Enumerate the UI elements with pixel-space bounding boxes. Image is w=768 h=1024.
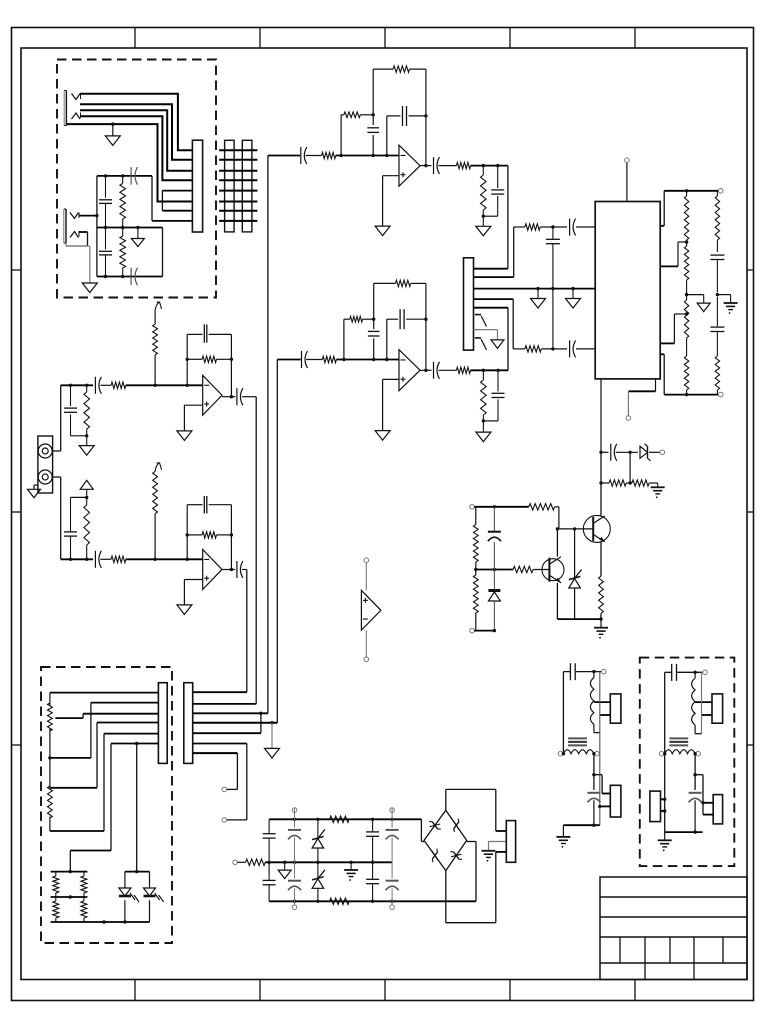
capacitor C17 between chains <box>546 227 560 349</box>
capacitor C5 <box>301 147 307 164</box>
capacitor C39 <box>95 551 101 568</box>
capacitor C21 <box>488 507 501 570</box>
capacitor C27 <box>366 862 379 901</box>
wire IC chain A <box>514 225 596 228</box>
wire W1 right <box>594 672 600 826</box>
wire stage1 input <box>268 155 300 157</box>
resistor R12 <box>481 370 487 421</box>
op-amp U3 supply <box>361 558 381 662</box>
wire C41-corner <box>242 569 247 571</box>
capacitor C37 <box>237 388 243 405</box>
wire bridge right <box>467 842 476 902</box>
ground U4A <box>177 431 192 441</box>
wire Q2 base <box>557 527 593 530</box>
capacitor C4 <box>131 268 137 286</box>
wire net bottom <box>97 275 163 278</box>
resistor R16 chain <box>715 191 719 252</box>
wire top rail <box>269 818 421 821</box>
wire branch C7 <box>387 116 426 156</box>
wire RC bottom stage1 <box>482 215 498 218</box>
dashed enclosure controls <box>41 667 172 943</box>
wire led feed <box>70 744 136 872</box>
wire R30-opampA <box>126 384 203 387</box>
wire row4 <box>193 721 278 724</box>
resistor R2 <box>120 228 126 277</box>
wire W4 right down <box>694 754 696 790</box>
terminal PSU in <box>233 860 246 865</box>
arrow stageB shunt <box>80 480 93 497</box>
resistor R19 <box>632 480 649 486</box>
wire J4 ground <box>28 485 41 498</box>
wire U4B out <box>222 569 235 571</box>
potentiometer P1 <box>48 693 53 760</box>
dashed enclosure T2 <box>640 658 735 867</box>
wire switch common <box>474 330 498 340</box>
resistor R23 divider <box>473 507 478 631</box>
wire row1 <box>193 691 247 693</box>
wire J1 tip <box>80 94 192 151</box>
capacitor C16 <box>570 340 576 357</box>
connector CN1 <box>192 140 202 232</box>
wire lrow6 <box>70 742 158 851</box>
wire C20 down <box>628 452 631 484</box>
resistor R15 chain <box>684 191 688 395</box>
wire IC chain B <box>513 347 595 350</box>
wire J3 pin1 <box>474 268 508 270</box>
connector J3 <box>464 258 474 350</box>
wire J4-A <box>53 385 61 451</box>
ground CN4 <box>482 851 496 862</box>
resistor R31 <box>202 356 216 362</box>
cable housing rect 1 <box>225 140 235 232</box>
ground tap2 <box>697 303 710 312</box>
ground switches <box>491 340 504 349</box>
phone jack J1 <box>64 91 80 126</box>
transformer core T1 <box>568 738 587 745</box>
resistor R14 <box>525 346 541 352</box>
wire row6 <box>193 743 247 745</box>
LED D4 <box>119 872 139 922</box>
resistor R22 <box>513 566 533 572</box>
wire U4A noninv <box>184 405 202 431</box>
capacitor C33 <box>689 793 702 832</box>
wire fbB top <box>187 504 231 506</box>
capacitor C6 <box>367 128 379 133</box>
wire U4B noninv <box>184 580 202 605</box>
wire U4A out <box>222 396 235 398</box>
resistor R18 <box>609 480 626 486</box>
capacitor C34 <box>64 385 77 436</box>
ground RC stage2 <box>476 421 491 442</box>
wire bottom right rail <box>664 392 723 397</box>
capacitor C31 <box>587 793 600 825</box>
ground U1B <box>375 431 390 441</box>
capacitor C30 <box>570 663 575 680</box>
resistor R30 <box>111 382 126 388</box>
wire fb left stage2 <box>372 283 375 359</box>
wire C5-R3 <box>306 155 322 157</box>
ground common B <box>566 289 581 308</box>
capacitor C3 <box>131 167 137 185</box>
wire bias mid <box>474 568 513 571</box>
capacitor C12 <box>400 309 404 329</box>
wire row2 <box>193 703 257 705</box>
wire stageA shunt bottom <box>71 434 89 437</box>
wire net top <box>97 174 152 177</box>
capacitor C26 <box>366 819 379 862</box>
wire lrow3 <box>55 714 158 718</box>
wire fbA res row <box>187 358 231 360</box>
wire J1 sleeve <box>66 122 192 201</box>
wire mid rail <box>265 861 392 864</box>
resistor R6 <box>456 162 470 168</box>
title block <box>600 877 747 980</box>
wire C37-corner <box>242 396 256 398</box>
wire bias bottom <box>470 628 496 633</box>
connector CN9 <box>703 795 723 824</box>
wire to terminal T1 <box>222 753 237 792</box>
zener D2 <box>569 529 582 619</box>
wire U1A noninv <box>383 176 399 226</box>
trimmer P4 <box>153 463 162 559</box>
capacitor C29 <box>386 862 399 909</box>
wire net left <box>96 176 98 277</box>
capacitor C10 <box>302 351 308 368</box>
transistor Q1 <box>542 557 564 583</box>
capacitor C35 <box>95 377 101 394</box>
resistor R20 <box>599 576 604 613</box>
wire W1 taps <box>594 701 610 703</box>
wire cap row <box>599 451 608 454</box>
wire Q2 emitter <box>600 542 602 576</box>
capacitor C2 <box>99 228 112 277</box>
zener D6 <box>312 819 325 862</box>
wire fb top stage1 <box>373 68 426 70</box>
switch contact S2 <box>475 338 487 350</box>
ground RC stage1 <box>476 216 491 236</box>
wire T2 bottom <box>665 830 703 833</box>
zener D7 <box>312 862 325 901</box>
op-amp U1B <box>399 350 420 391</box>
connector CN3 <box>184 683 193 764</box>
wire emitter bottom <box>557 618 601 620</box>
resistor R1 <box>120 176 126 228</box>
wire tap1 to U2 <box>660 242 686 266</box>
capacitor C32 <box>672 664 677 681</box>
capacitor C38 <box>64 497 77 559</box>
wire J2 sleeve <box>66 243 90 283</box>
wire J1 contact 3 <box>80 110 192 170</box>
op-amp U1A <box>399 145 420 186</box>
wire J2 tip <box>79 214 99 217</box>
resistor R8 <box>322 356 336 362</box>
wire net mid <box>97 226 163 229</box>
ground U4B <box>177 605 192 615</box>
wire lrow4 <box>50 723 158 788</box>
wire R33-opampB <box>126 558 203 561</box>
capacitor C28 <box>386 808 399 863</box>
wire bridge left <box>421 819 424 841</box>
wire jog vertical <box>260 713 262 733</box>
cable housing rect 2 <box>242 140 252 232</box>
wire bridge top <box>446 789 496 831</box>
wire branch C12 <box>387 319 426 359</box>
ground U1A <box>375 226 390 236</box>
dashed enclosure input section <box>57 60 216 298</box>
wire fb left stage1 <box>372 69 375 155</box>
wire J2 ring <box>66 232 88 246</box>
connector CN8 <box>702 694 723 723</box>
wire Q1 collector <box>556 527 559 557</box>
ground PSU earth <box>344 862 358 881</box>
capacitor C18 <box>710 255 724 296</box>
connector CN6 <box>598 785 621 817</box>
inductor W1 primary <box>590 672 594 733</box>
resistor R32 <box>84 497 90 559</box>
wire stageB out vertical <box>246 570 248 693</box>
resistor R13 <box>525 224 540 230</box>
trimmer P3 <box>153 302 162 385</box>
capacitor C7 <box>403 106 407 126</box>
ground in net <box>131 228 144 247</box>
wire J1 contact 4 <box>80 116 192 180</box>
wire net right lower <box>162 228 164 277</box>
LED D5 <box>144 872 164 922</box>
potentiometer P2 <box>48 758 53 831</box>
wire T1 left <box>562 672 564 754</box>
wire lrow1 <box>50 692 158 694</box>
wire row7 <box>193 752 238 754</box>
wire J1 ring <box>80 104 192 160</box>
wire U1A out <box>420 165 431 167</box>
resistor R5 <box>393 66 409 72</box>
transistor Q2 <box>583 515 610 542</box>
wire T2 top <box>665 670 708 675</box>
resistor R11 <box>456 367 470 373</box>
wire W3 taps <box>695 701 712 703</box>
wire R11-corner <box>471 369 508 372</box>
wire C13-R11 <box>439 369 457 371</box>
resistor R21 <box>529 504 555 510</box>
wire bias top <box>470 505 529 510</box>
wire CN4 pin3 <box>496 851 507 853</box>
wire fb right stage2 <box>424 283 427 372</box>
wire R19-gnd <box>649 483 658 487</box>
capacitor C14 <box>492 370 505 421</box>
wire W2 jog <box>592 773 610 794</box>
wire R20-gnd <box>599 613 602 620</box>
wire fbB res row <box>187 534 231 536</box>
wire bridge bottom <box>446 852 496 923</box>
wire U2 top pin <box>625 158 630 202</box>
capacitor C8 <box>434 157 440 174</box>
capacitor C1 <box>99 176 112 228</box>
wire stageA input <box>61 384 93 387</box>
wire fbA left <box>186 334 189 385</box>
wire resistor rails <box>51 870 88 899</box>
wire row3 <box>193 712 268 715</box>
capacitor C19 <box>710 297 724 356</box>
wire net link rows <box>162 191 192 211</box>
switch contact S1 <box>475 315 487 327</box>
inductor W3 primary <box>692 672 696 733</box>
ground at J2 <box>82 283 97 293</box>
op-amp U4A <box>203 375 222 415</box>
wire lrow2 <box>50 703 158 758</box>
wire U2 stub A <box>660 191 664 226</box>
connector CN2 <box>158 683 167 764</box>
connector CN5 <box>600 694 621 723</box>
wire bottom rail <box>269 900 476 903</box>
ground Q2 emitter <box>594 619 608 639</box>
wire branch R9 <box>344 319 374 359</box>
ground T2 <box>658 832 672 851</box>
inductor W4 secondary <box>659 750 700 756</box>
resistor R28 <box>330 898 350 904</box>
wire D1-out <box>649 450 665 455</box>
IC U2 <box>595 202 660 379</box>
RCA jack J4 <box>38 436 53 493</box>
ground T1 <box>556 825 570 848</box>
wire Q1 emitter <box>556 583 558 619</box>
wire down to J3 pin1 <box>507 166 509 269</box>
phone jack J2 <box>64 209 79 243</box>
capacitor C9 <box>491 166 504 217</box>
resistor R7 <box>481 166 487 217</box>
wire C20-D1 <box>616 451 638 454</box>
resistor R17 <box>715 356 719 395</box>
capacitor C22 <box>263 819 276 862</box>
ground PSU mid <box>278 862 291 878</box>
capacitor C41 <box>237 561 243 578</box>
resistor R27 <box>330 816 350 822</box>
wire tap2 ground <box>687 295 704 304</box>
diode D1 <box>640 444 651 461</box>
wire C10-R8 <box>306 359 322 361</box>
wire stageA out vertical <box>255 397 257 704</box>
wire U2 bottom pins <box>601 379 656 452</box>
capacitor C11 <box>368 331 380 336</box>
wire fbA right <box>230 334 233 398</box>
wire bottom rail <box>51 920 150 923</box>
wire R8-opamp <box>336 358 399 361</box>
wire W4 jog <box>693 773 713 815</box>
wire CN4 pin2 <box>489 842 507 851</box>
wire J3 pin3 common <box>474 287 596 290</box>
bridge rectifier BR1 <box>424 810 467 870</box>
wire cap mid stub <box>717 295 730 303</box>
wire row5 <box>193 732 261 734</box>
wire stageB input <box>61 558 93 561</box>
wire stage2 in vertical <box>276 360 278 723</box>
diode D3 <box>488 570 500 631</box>
wire stage1 in vertical <box>267 156 269 714</box>
wire T2 left <box>664 672 666 832</box>
capacitor C40 <box>204 496 207 513</box>
ground corridor <box>265 723 280 758</box>
capacitor C24 <box>288 808 301 863</box>
wire J4-B <box>53 477 61 559</box>
ground stageA shunt <box>79 436 94 455</box>
inductor W2 secondary <box>558 750 599 756</box>
wire up to J3 pin5 <box>507 308 509 371</box>
ground at J1 <box>105 124 120 145</box>
capacitor C23 <box>263 862 276 901</box>
wire fbB right <box>230 505 233 572</box>
wire U2 stub B <box>660 354 664 394</box>
wire R3-opamp <box>336 154 399 157</box>
resistor R10 <box>396 280 411 286</box>
wire top right rail <box>664 189 723 194</box>
wire J3 pin2 <box>474 227 514 277</box>
wire fbB left <box>186 505 189 560</box>
wire R22-Q1base <box>533 569 549 571</box>
wire T1 top <box>563 669 606 674</box>
wire branch R4 <box>341 115 373 156</box>
capacitor C25 <box>288 862 301 909</box>
wire RC bottom stage2 <box>482 419 498 422</box>
wire lrow5 <box>50 734 158 831</box>
wire T1 bottom <box>563 824 599 827</box>
wire J3 pin4 <box>474 299 514 349</box>
wire tap3 to U2 <box>660 314 686 343</box>
wire to terminal T2 <box>222 744 247 823</box>
transformer core T2 <box>669 738 688 745</box>
ground res row <box>651 487 665 498</box>
resistor R9 <box>350 316 363 322</box>
wire fb right stage1 <box>424 69 427 167</box>
capacitor C13 <box>434 362 440 379</box>
wire U2-Q2 <box>600 452 602 515</box>
wire J3 pin5 <box>474 307 509 309</box>
wire fb top stage2 <box>374 282 426 284</box>
wire W3 right <box>695 672 701 733</box>
wire R6-corner <box>471 164 508 167</box>
wire stageB shunt top <box>71 496 89 499</box>
wire U1B out <box>420 369 431 371</box>
ground common A <box>531 289 546 308</box>
capacitor C20 <box>611 444 617 461</box>
resistor R24 <box>53 872 59 922</box>
resistor R3 <box>322 152 336 158</box>
resistor R26 <box>246 859 266 865</box>
resistor R29 <box>84 385 90 436</box>
capacitor C36 <box>204 324 207 342</box>
ground cap mid <box>724 303 738 314</box>
wire res row <box>599 481 609 484</box>
resistor R4 <box>344 112 360 118</box>
capacitor C15 <box>570 219 576 236</box>
wire stage2 input <box>277 359 300 361</box>
cable wires <box>219 150 257 221</box>
resistor R25 <box>81 872 87 922</box>
wire C39-R33 <box>100 558 111 560</box>
connector CN4 <box>506 821 515 863</box>
wire led top rail <box>125 870 150 873</box>
op-amp U4B <box>203 550 222 590</box>
wire C35-R30 <box>100 384 111 386</box>
resistor R33 <box>111 556 126 562</box>
resistor R34 <box>202 532 216 538</box>
wire net right upper <box>152 176 192 221</box>
wire CN4 pin1 <box>496 830 507 832</box>
connector CN7 <box>650 791 667 822</box>
wire C8-R6 <box>439 165 457 167</box>
wire R21-Q2base <box>555 507 559 529</box>
wire fbA top <box>187 333 231 335</box>
wire R18-R19 <box>626 482 632 484</box>
wire U1B noninv <box>383 379 399 430</box>
